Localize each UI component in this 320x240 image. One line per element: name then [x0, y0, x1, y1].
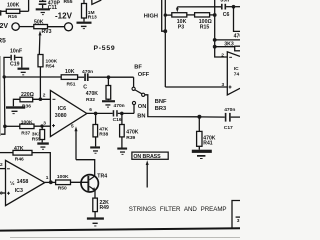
svg-text:100K: 100K	[57, 174, 69, 180]
svg-text:HIGH: HIGH	[144, 14, 158, 20]
RV3 wiper arrow	[38, 35, 41, 55]
op-amp input signs	[7, 57, 232, 194]
resistor R46 47K	[0, 152, 13, 154]
node IC6 out	[94, 112, 98, 116]
ground of R41	[192, 150, 212, 159]
title block box	[232, 201, 240, 230]
svg-text:3: 3	[237, 218, 240, 224]
wire R37 to node C and IC6 pin3	[34, 125, 50, 127]
svg-text:BN: BN	[137, 114, 145, 120]
wire R46 to IC3 output node	[32, 153, 50, 183]
svg-text:2V: 2V	[0, 23, 8, 30]
node at R39 top	[120, 112, 124, 116]
resistor R13 1M vertical	[83, 0, 85, 4]
IC6 output wire	[87, 112, 113, 114]
svg-text:100K: 100K	[46, 59, 58, 65]
svg-text:1: 1	[46, 175, 49, 181]
wire R36 right to node	[33, 98, 51, 100]
svg-text:½: ½	[10, 180, 15, 187]
svg-text:IC6: IC6	[58, 106, 66, 112]
svg-text:R54: R54	[46, 64, 55, 70]
capacitor C17 470n	[225, 113, 231, 122]
capacitor C 470n	[84, 73, 88, 81]
wire R51 to cap C	[78, 76, 85, 78]
potentiometer RV3 50K	[34, 25, 48, 29]
svg-text:TR4: TR4	[97, 173, 107, 179]
resistor R15 100R	[195, 13, 210, 17]
terminal circle -12V left	[12, 23, 19, 30]
wire R16 left lead from edge	[0, 10, 6, 12]
svg-text:C19: C19	[10, 62, 20, 68]
resistor R39 470K vertical	[121, 113, 123, 124]
wire node B to R37	[5, 125, 20, 127]
wire bus to P3	[165, 14, 172, 16]
resistor R41 470K vertical	[198, 117, 200, 132]
ground of R55	[37, 142, 49, 149]
border line bottom	[0, 228, 240, 230]
svg-text:BF: BF	[134, 65, 142, 71]
svg-text:R50: R50	[58, 186, 67, 192]
ground of R36	[6, 106, 25, 114]
node A to node B vertical	[3, 77, 5, 126]
wire RV3 to -12V circle	[48, 26, 65, 28]
wiper wire to C6	[177, 6, 221, 8]
resistor 3K3 cut at edge	[235, 46, 241, 51]
wire P3 to R15	[187, 14, 195, 16]
svg-text:P-559: P-559	[94, 45, 116, 52]
HIGH bus left line	[162, 0, 166, 31]
resistor R51 10K	[61, 75, 77, 80]
resistor R32 470K vertical	[107, 77, 109, 85]
svg-text:470: 470	[234, 34, 240, 40]
resistor R36 220R	[20, 97, 33, 102]
svg-text:BR3: BR3	[155, 106, 166, 112]
ground of R49	[87, 217, 104, 226]
svg-text:2: 2	[43, 93, 46, 99]
svg-text:R46: R46	[15, 156, 24, 162]
node at R41 top	[197, 115, 201, 119]
op-amp fragment above R13	[92, 0, 102, 4]
svg-text:100K: 100K	[7, 2, 20, 8]
ground of R13	[77, 22, 92, 30]
svg-text:3: 3	[0, 191, 3, 197]
ON BRASS arrow	[146, 164, 148, 187]
resistor R55 3K3 vertical	[41, 126, 43, 129]
wire C6 to node	[226, 6, 240, 8]
svg-text:R51: R51	[67, 81, 76, 87]
svg-text:R41: R41	[203, 141, 213, 147]
svg-text:470K: 470K	[126, 129, 138, 135]
svg-text:C17: C17	[224, 125, 233, 131]
svg-text:ON: ON	[138, 104, 147, 110]
svg-text:R37: R37	[21, 131, 30, 137]
svg-text:10K: 10K	[65, 69, 75, 75]
wire C16 to switch ON contact	[118, 112, 134, 114]
resistor R50 100K	[56, 180, 71, 185]
resistor R38 47K vertical	[95, 113, 97, 124]
node R15	[213, 13, 217, 17]
wire C17 to right edge	[231, 116, 240, 118]
resistor R49 22K vertical	[93, 198, 98, 212]
svg-text:R49: R49	[100, 205, 110, 211]
left edge cut mark	[0, 10, 1, 15]
TR4 emitter wire	[94, 190, 96, 198]
svg-text:47K: 47K	[14, 146, 24, 152]
capacitor C16 470n	[113, 110, 118, 116]
svg-text:39n: 39n	[220, 0, 229, 4]
node branch 3K3	[213, 45, 217, 49]
transistor TR4	[81, 175, 98, 192]
ground of R39	[117, 148, 127, 155]
svg-text:R55: R55	[32, 136, 41, 142]
wire cap C to switch corner	[89, 76, 134, 78]
svg-text:R16: R16	[8, 14, 17, 20]
ground of C11	[36, 8, 50, 15]
svg-text:3080: 3080	[55, 113, 67, 119]
wire to C17	[199, 116, 224, 118]
svg-text:C: C	[83, 84, 87, 90]
wire C6 node down and right	[234, 7, 241, 32]
svg-text:74: 74	[234, 71, 240, 77]
svg-text:10nF: 10nF	[10, 49, 22, 55]
IC6 pin5 bias arrow	[75, 131, 77, 160]
node at IC6 pin2	[39, 97, 43, 101]
wire bus to IC7 pin3	[165, 86, 227, 88]
wire vertical to top edge at x28.6	[28, 0, 30, 11]
node branch 47x	[213, 38, 217, 42]
svg-text:C11: C11	[48, 5, 57, 11]
svg-text:3: 3	[222, 82, 225, 88]
switch contact c3	[132, 101, 135, 104]
svg-text:C6: C6	[223, 12, 230, 18]
svg-text:R55: R55	[64, 0, 73, 5]
svg-text:ON BRASS: ON BRASS	[133, 154, 161, 160]
wire R54 down crossing main wire to node	[39, 67, 41, 100]
wire up to switch contact c3	[133, 105, 135, 114]
vertical bus x214.7	[215, 0, 228, 57]
svg-text:BNF: BNF	[155, 99, 167, 105]
wire node B exit left edge	[0, 126, 5, 134]
svg-text:3: 3	[43, 120, 46, 126]
terminal circle -12V right	[65, 23, 73, 31]
svg-text:IC: IC	[234, 66, 239, 72]
op-amp IC3 1458	[6, 160, 45, 205]
svg-text:50K: 50K	[34, 20, 44, 26]
switch contact c1	[132, 87, 135, 90]
wire R36 left to ground	[13, 99, 20, 106]
svg-text:C16: C16	[113, 117, 122, 123]
resistor R16	[6, 9, 19, 13]
svg-text:100K: 100K	[21, 120, 33, 126]
svg-text:5: 5	[71, 123, 74, 129]
ground of R38	[90, 146, 100, 153]
wire pole to BNF BR3 and down	[145, 95, 200, 117]
switch contact c2 pole	[142, 93, 145, 96]
capacitor C11	[39, 0, 47, 5]
svg-text:STRINGS FILTER AND PREAMP: STRINGS FILTER AND PREAMP	[129, 206, 227, 213]
wire down to switch contact BF	[133, 77, 135, 87]
svg-text:470K: 470K	[86, 91, 98, 97]
node B	[3, 125, 7, 129]
capacitor C6 39n	[221, 4, 226, 10]
svg-text:IC3: IC3	[15, 188, 23, 194]
svg-text:3K3: 3K3	[224, 42, 234, 48]
wire terminal to RV3	[19, 26, 34, 28]
svg-text:470n: 470n	[224, 107, 235, 113]
svg-text:470n: 470n	[114, 103, 125, 109]
wire C19 right to ground	[15, 57, 21, 67]
main wire y77 node A to R51	[4, 76, 61, 78]
node C	[40, 124, 43, 127]
svg-text:-12V: -12V	[55, 11, 73, 20]
wire R50 to TR4 base	[71, 181, 88, 183]
capacitor C19 10nF	[10, 55, 15, 61]
svg-text:2: 2	[221, 52, 224, 58]
svg-text:6: 6	[89, 107, 92, 113]
resistor R37 100K	[20, 124, 34, 129]
wire R16 right lead	[20, 10, 29, 12]
svg-text:OFF: OFF	[138, 72, 150, 78]
svg-text:R39: R39	[126, 135, 135, 141]
svg-text:R5: R5	[0, 37, 6, 44]
svg-text:R36: R36	[22, 104, 31, 110]
svg-text:2: 2	[0, 162, 3, 168]
op-amp IC7 741 cut at edge	[227, 52, 240, 95]
scan edge artifact line	[0, 56, 1, 136]
node at R32 top	[107, 75, 111, 79]
svg-text:R13: R13	[88, 15, 97, 21]
wire pin5 to TR4 collector	[76, 160, 95, 177]
HIGH bus right line	[164, 0, 166, 87]
svg-text:R15: R15	[200, 24, 210, 30]
svg-text:R38: R38	[99, 132, 108, 138]
node bus P3	[164, 13, 167, 16]
ground of R32	[102, 100, 115, 107]
svg-text:R32: R32	[86, 97, 95, 103]
op-amp IC6 3080	[50, 90, 86, 136]
ground of C19	[18, 68, 30, 76]
node bus merge	[163, 29, 167, 33]
wire C19 left down to node A	[4, 57, 10, 76]
svg-text:47K: 47K	[99, 126, 108, 132]
IC3 pin3 wire	[0, 192, 6, 194]
svg-text:1458: 1458	[17, 179, 29, 185]
wire R15 to bus node	[210, 14, 215, 16]
resistor R54 100K vertical	[38, 55, 43, 67]
IC3 pin2 wire	[0, 168, 6, 170]
wire branch to right edge	[215, 39, 240, 41]
node C6	[232, 5, 236, 9]
node IC3 out	[49, 180, 53, 184]
potentiometer P3 10K	[172, 13, 187, 17]
P3 wiper arrow	[176, 7, 178, 9]
switch lever	[135, 90, 142, 94]
svg-text:RV3: RV3	[42, 29, 52, 35]
node A	[2, 75, 5, 78]
svg-text:P3: P3	[178, 24, 184, 30]
svg-text:220Ω: 220Ω	[21, 92, 35, 98]
wire branch to 3K3	[215, 46, 235, 48]
svg-text:470n: 470n	[82, 69, 93, 75]
ON BRASS box	[132, 152, 168, 159]
IC3 output wire	[45, 181, 56, 183]
